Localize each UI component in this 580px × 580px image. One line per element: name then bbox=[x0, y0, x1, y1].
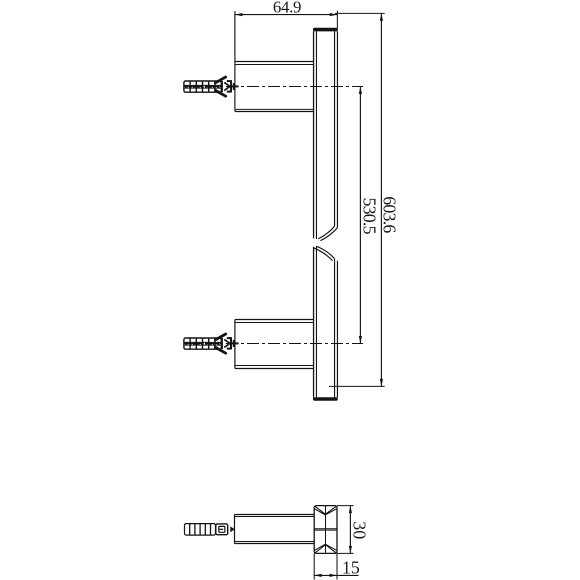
end view: vertical mid line bbox=[325, 506, 327, 554]
handle bar inner left contour bbox=[315, 31, 317, 397]
centerline bottom post axis bbox=[184, 343, 363, 345]
dimension 530.5 line bbox=[359, 87, 361, 344]
end view: top chamfer V bbox=[315, 506, 337, 515]
bar break lower S-curves bbox=[314, 246, 335, 261]
top mounting post bbox=[235, 62, 314, 112]
svg-text:30: 30 bbox=[350, 521, 370, 539]
svg-text:603.6: 603.6 bbox=[379, 196, 399, 233]
bottom mounting post bbox=[235, 320, 314, 369]
end view: wall anchor with screw bbox=[185, 524, 228, 536]
screw anchor at bottom post bbox=[184, 334, 239, 353]
end view: horizontal seam lines bbox=[314, 529, 337, 530]
end view: post bbox=[235, 515, 315, 544]
handle bar outer right edge bbox=[336, 31, 338, 397]
dimension 64.9 line bbox=[235, 11, 337, 112]
svg-text:64.9: 64.9 bbox=[273, 0, 301, 16]
handle bar inner right contour bbox=[334, 31, 336, 397]
dimension 30 line bbox=[337, 506, 354, 554]
handle bar top end cap bbox=[313, 28, 338, 32]
handle bar bottom end cap bbox=[313, 397, 338, 401]
bar break upper S-curves bbox=[318, 226, 337, 241]
screw anchor at top post bbox=[184, 77, 239, 96]
end view: screw tip bbox=[230, 526, 234, 532]
end view: bar cross-section square bbox=[314, 506, 337, 554]
svg-text:15: 15 bbox=[342, 557, 360, 577]
svg-text:530.5: 530.5 bbox=[360, 197, 380, 234]
handle bar outer left edge bbox=[313, 31, 315, 397]
end view: bottom chamfer V bbox=[315, 544, 337, 553]
centerline top post axis bbox=[184, 86, 363, 88]
dimension 15 line bbox=[314, 553, 358, 579]
dimension 603.6 line bbox=[329, 13, 385, 386]
